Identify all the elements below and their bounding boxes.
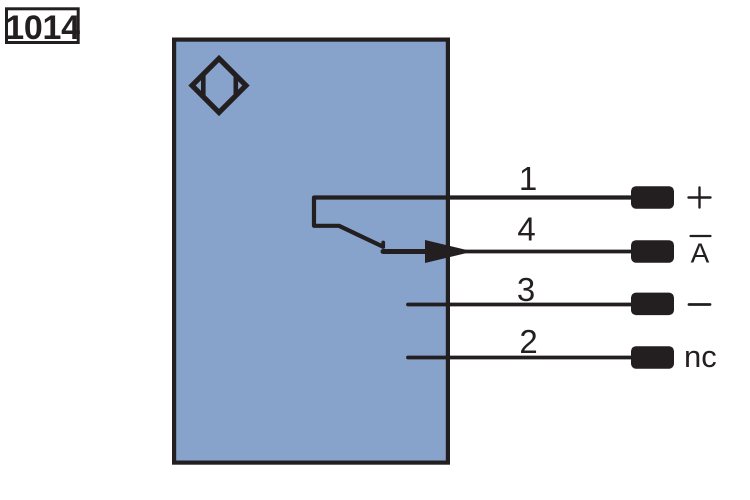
svg-text:1014: 1014 bbox=[5, 9, 80, 47]
svg-text:3: 3 bbox=[517, 271, 535, 308]
svg-text:4: 4 bbox=[517, 211, 535, 248]
svg-text:A: A bbox=[691, 238, 710, 269]
svg-text:nc: nc bbox=[684, 339, 717, 374]
svg-text:2: 2 bbox=[519, 323, 537, 360]
svg-text:1: 1 bbox=[519, 160, 537, 197]
